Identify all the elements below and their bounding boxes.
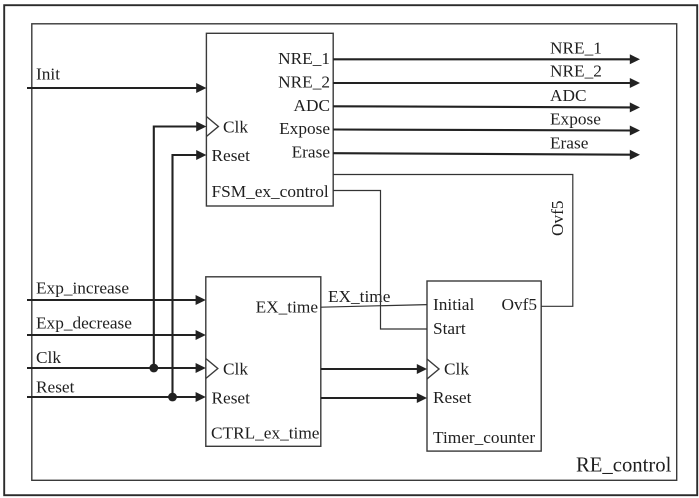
- svg-text:Reset: Reset: [212, 389, 251, 408]
- wire Exp_decrease: [27, 334, 198, 336]
- wire Start net: [333, 191, 427, 330]
- wire Reset horizontal: [27, 396, 198, 398]
- arrowhead NRE_2: [630, 78, 640, 88]
- svg-text:Initial: Initial: [433, 295, 474, 314]
- svg-text:Timer_counter: Timer_counter: [433, 428, 535, 447]
- block U2 CTRL_ex_time: [206, 277, 321, 447]
- wire Clk U2 to U3: [321, 368, 419, 370]
- block U3 Timer_counter: [427, 281, 541, 451]
- svg-text:Exp_increase: Exp_increase: [36, 279, 129, 298]
- svg-text:ADC: ADC: [550, 86, 587, 105]
- arrowhead Exp_increase: [196, 295, 206, 305]
- svg-text:Clk: Clk: [36, 348, 61, 367]
- wire Init: [27, 87, 198, 89]
- wire Reset vertical branch: [173, 155, 199, 397]
- arrowhead Init: [196, 83, 206, 93]
- svg-text:Reset: Reset: [212, 146, 251, 165]
- wire Clk vertical branch: [154, 127, 198, 369]
- svg-text:NRE_1: NRE_1: [550, 39, 602, 58]
- svg-text:RE_control: RE_control: [576, 455, 672, 477]
- arrowhead Reset into U2: [196, 392, 206, 402]
- svg-text:Clk: Clk: [223, 359, 248, 378]
- svg-text:Clk: Clk: [223, 117, 248, 136]
- junction dot Reset: [168, 393, 177, 402]
- arrowhead Reset into U3: [417, 393, 427, 403]
- wire ADC output: [333, 106, 631, 107]
- svg-text:ADC: ADC: [294, 96, 331, 115]
- svg-text:Reset: Reset: [433, 388, 472, 407]
- svg-text:Init: Init: [36, 65, 60, 84]
- arrowhead Clk into U2: [196, 363, 206, 373]
- arrowhead Expose: [630, 126, 640, 136]
- wire Exp_increase: [27, 299, 198, 301]
- wire NRE_2 output: [333, 82, 631, 84]
- svg-text:Clk: Clk: [444, 360, 469, 379]
- clock wedge U2 Clk: [206, 359, 218, 379]
- svg-text:EX_time: EX_time: [256, 298, 319, 317]
- clock wedge U1 Clk: [206, 117, 218, 137]
- svg-text:Expose: Expose: [279, 119, 330, 138]
- wire NRE_1 output: [333, 58, 631, 60]
- svg-text:Ovf5: Ovf5: [501, 295, 537, 314]
- svg-text:NRE_2: NRE_2: [278, 73, 330, 92]
- svg-text:Erase: Erase: [550, 134, 589, 153]
- arrowhead Erase: [630, 150, 640, 160]
- svg-text:NRE_1: NRE_1: [278, 49, 330, 68]
- clock wedge U3 Clk: [427, 359, 439, 379]
- svg-text:NRE_2: NRE_2: [550, 62, 602, 81]
- svg-text:Reset: Reset: [36, 378, 75, 397]
- block U1 FSM_ex_control: [206, 33, 333, 206]
- wire EX_time net: [321, 305, 427, 308]
- svg-text:CTRL_ex_time: CTRL_ex_time: [211, 424, 320, 443]
- wire Clk horizontal: [27, 367, 198, 369]
- arrowhead Reset into U1: [196, 150, 206, 160]
- wire Reset U2 to U3: [321, 397, 419, 399]
- wire Erase output: [333, 153, 631, 155]
- arrowhead Exp_decrease: [196, 330, 206, 340]
- arrowhead Clk into U3: [417, 364, 427, 374]
- wire Expose output: [333, 130, 631, 131]
- svg-text:FSM_ex_control: FSM_ex_control: [212, 182, 329, 201]
- svg-text:EX_time: EX_time: [328, 287, 391, 306]
- svg-text:Erase: Erase: [292, 143, 331, 162]
- wire Ovf5 net: [333, 175, 573, 307]
- arrowhead NRE_1: [630, 54, 640, 64]
- junction dot Clk: [149, 364, 158, 373]
- svg-text:Expose: Expose: [550, 110, 601, 129]
- arrowhead ADC: [630, 102, 640, 112]
- arrowhead Clk into U1: [196, 122, 206, 132]
- svg-text:Start: Start: [433, 319, 466, 338]
- svg-text:Exp_decrease: Exp_decrease: [36, 314, 132, 333]
- svg-text:Ovf5: Ovf5: [548, 200, 567, 236]
